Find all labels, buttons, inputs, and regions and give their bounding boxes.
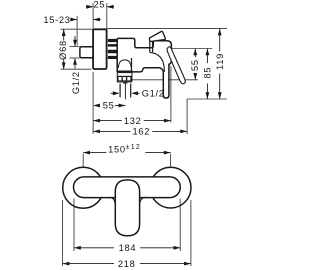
extension line: wall plane (15-23 left ref) xyxy=(61,3,228,134)
dimension 15-23 xyxy=(71,19,100,21)
extension tick: escutcheon bottom (Ø68) xyxy=(61,68,92,70)
dimension 184 xyxy=(74,246,81,250)
handle neck xyxy=(149,40,151,52)
ref line: outlet end level (85/119 bottom) xyxy=(187,98,227,100)
svg-text:85: 85 xyxy=(203,67,213,79)
left escutcheon circle xyxy=(63,167,104,208)
knurled connector ladder xyxy=(108,39,118,42)
dimension 218 xyxy=(63,262,70,266)
ext: left circle centre up to 150 dim xyxy=(82,154,84,168)
ref line: blade tip level (55 bottom) xyxy=(132,79,199,81)
svg-text:184: 184 xyxy=(119,243,137,253)
svg-text:25: 25 xyxy=(94,0,106,10)
outlet nut bottom band xyxy=(117,81,133,82)
svg-text:218: 218 xyxy=(118,259,136,269)
ext: right circle centre up to 150 dim xyxy=(170,154,172,167)
dimension 162 xyxy=(93,130,100,134)
bar-to-handle fillet left xyxy=(110,197,115,203)
ext: left circle outer down to 218 dim xyxy=(62,200,64,266)
ref line: handle top level (119 top) xyxy=(107,28,227,30)
mixer body with outlet elbow xyxy=(117,38,171,98)
extension tick: stub bottom (G1/2 left) xyxy=(70,57,80,59)
dimension 55 (horizontal) xyxy=(93,104,100,108)
ref line: body corner level (55/85 top) xyxy=(172,48,212,50)
svg-text:150: 150 xyxy=(108,144,126,154)
ext: bar right end down to 184 dim xyxy=(179,199,181,252)
extension line: left ref down to dims 55/132/162 xyxy=(92,72,94,134)
dimension 150±12 xyxy=(83,152,106,154)
extension lines bottom view xyxy=(63,154,191,267)
body styling arc xyxy=(150,52,165,72)
svg-text:119: 119 xyxy=(215,53,225,70)
extension tick: escutcheon top (Ø68) xyxy=(61,28,93,30)
dimension G1/2 (left, vertical) xyxy=(74,36,76,46)
handle paddle (raised) xyxy=(149,31,165,41)
extension line: escutcheon face (x=91.3) xyxy=(92,3,94,28)
extension line: body joint (x=105.6) xyxy=(106,3,108,38)
dimension 119 (vertical right) xyxy=(219,29,221,52)
svg-text:±12: ±12 xyxy=(126,144,142,151)
extension line: body right edge down to 132 dim xyxy=(170,66,172,123)
outlet pipe edges + centreline xyxy=(119,84,121,98)
dimension G1/2 (outlet) xyxy=(111,92,113,94)
svg-text:132: 132 xyxy=(124,116,142,126)
svg-text:G1/2: G1/2 xyxy=(142,88,165,98)
handle raised-position blade (diagonal) xyxy=(167,47,185,84)
handle (front, hanging down) xyxy=(115,180,139,236)
right escutcheon circle xyxy=(150,167,191,208)
outlet nut upper band xyxy=(117,73,132,77)
dimension 25 (top) xyxy=(86,6,114,8)
svg-text:Ø68: Ø68 xyxy=(58,40,68,60)
svg-text:G1/2: G1/2 xyxy=(71,71,81,94)
ext: bar left end down to 184 dim xyxy=(73,199,75,252)
body/elbow interior dome xyxy=(118,60,131,68)
dimension 132 xyxy=(93,119,100,123)
extension line: handle tip down to 162 dim xyxy=(186,99,188,134)
escutcheon (side view) xyxy=(93,29,107,69)
dimension 55 (vertical right) xyxy=(194,49,196,58)
dimension Ø68 (vertical, left) xyxy=(63,29,65,40)
outlet nipple tab xyxy=(123,82,127,83)
body bar (front) xyxy=(74,177,181,198)
extension tick: stub top (G1/2 left) xyxy=(70,46,80,48)
svg-text:55: 55 xyxy=(190,59,200,71)
wall thread stub xyxy=(80,47,94,58)
svg-text:15-23: 15-23 xyxy=(43,15,70,25)
svg-text:55: 55 xyxy=(103,100,115,110)
dimension 85 (vertical right) xyxy=(206,49,208,64)
ext: right circle outer down to 218 dim xyxy=(190,200,192,266)
bar-to-handle fillet right xyxy=(140,197,145,203)
svg-text:162: 162 xyxy=(132,127,150,137)
outlet ring lines xyxy=(117,70,132,72)
outlet knurled band xyxy=(117,76,133,81)
